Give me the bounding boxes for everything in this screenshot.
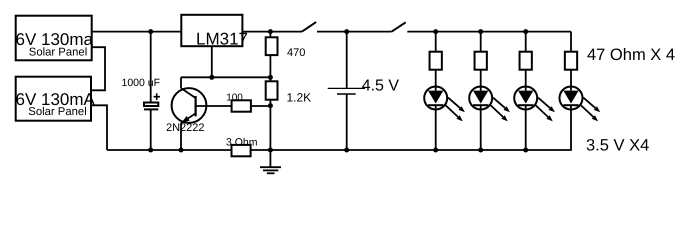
svg-text:LM317: LM317 <box>196 29 248 48</box>
regulator U1 LM317 <box>181 15 248 49</box>
node LED 1 bottom <box>433 148 438 153</box>
node divider top junction <box>268 75 273 80</box>
wire LM317 output <box>242 31 302 33</box>
svg-text:3 Ohm: 3 Ohm <box>226 137 258 149</box>
node LED string 3 top <box>523 29 528 34</box>
capacitor C1 1000uF <box>122 77 161 110</box>
node battery top junction <box>344 29 349 34</box>
wire adj rail to divider <box>181 76 270 78</box>
resistor R2 1.2K <box>266 77 311 105</box>
resistor R6 47 Ohm string2 <box>475 32 487 70</box>
solar panel PV1 <box>16 16 94 61</box>
wire PV2- to ground rail <box>91 105 107 150</box>
solar panel PV2 <box>16 77 96 121</box>
svg-text:1000 uF: 1000 uF <box>122 77 161 89</box>
node base network junction <box>268 103 273 108</box>
svg-text:Solar Panel: Solar Panel <box>28 106 86 118</box>
node LED string 1 top <box>433 29 438 34</box>
resistor R4 3 Ohm <box>226 137 258 157</box>
ground <box>260 150 281 173</box>
svg-text:4.5 V: 4.5 V <box>362 77 400 94</box>
wire capacitor bottom lead <box>150 109 152 150</box>
LED D3 <box>514 70 555 150</box>
svg-text:100: 100 <box>226 92 243 103</box>
node capacitor top junction <box>148 29 153 34</box>
node LED 2 bottom <box>478 148 483 153</box>
resistor R5 47 Ohm string1 <box>430 32 442 70</box>
wire LED string 4 drop <box>570 32 572 52</box>
transistor Q1 2N2222 <box>166 77 232 150</box>
node 470 top junction <box>268 29 273 34</box>
node adj junction <box>209 75 214 80</box>
LED D1 <box>424 70 465 150</box>
svg-text:Solar Panel: Solar Panel <box>29 47 87 59</box>
svg-text:470: 470 <box>287 47 305 59</box>
svg-text:3.5 V X4: 3.5 V X4 <box>586 137 649 155</box>
resistor R3 100 <box>226 92 270 111</box>
switch SW2 <box>392 22 571 31</box>
wire LM317 adj lead <box>211 46 213 77</box>
node LED string 2 top <box>478 29 483 34</box>
wire ground rail left <box>107 149 232 151</box>
wire battery junction to SW2 <box>347 31 392 33</box>
wire PV1- to PV2+ <box>91 47 105 90</box>
node LED 3 bottom <box>523 148 528 153</box>
wire ground rail right <box>251 110 571 151</box>
node ground junction <box>268 148 273 153</box>
resistor R8 47 Ohm string4 <box>565 52 577 70</box>
wire PV1+ to LM317 input <box>92 31 182 33</box>
resistor R7 47 Ohm string3 <box>520 32 532 70</box>
switch SW1 <box>302 22 347 32</box>
node emitter bottom <box>179 148 184 153</box>
wire base node to ground rail <box>269 106 271 150</box>
svg-text:2N2222: 2N2222 <box>166 122 205 134</box>
LED D2 <box>469 70 510 150</box>
resistor R1 470 <box>266 32 306 78</box>
svg-text:1.2K: 1.2K <box>287 91 312 105</box>
battery B1 4.5V <box>328 32 400 150</box>
LED D4 <box>560 70 601 122</box>
wire capacitor top lead <box>150 32 152 103</box>
node capacitor bottom <box>148 148 153 153</box>
svg-text:47 Ohm X 4: 47 Ohm X 4 <box>587 46 675 64</box>
node battery bottom <box>344 148 349 153</box>
